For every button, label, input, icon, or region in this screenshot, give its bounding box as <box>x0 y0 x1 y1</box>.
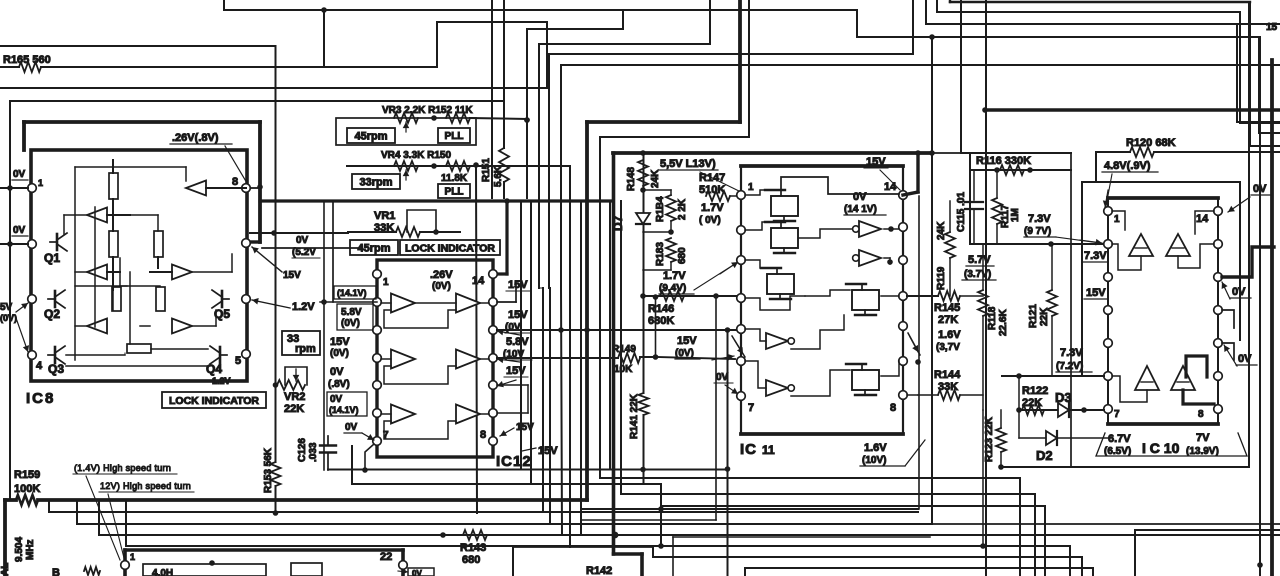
svg-text:15V: 15V <box>538 445 558 457</box>
IC8 wire i10 <box>192 325 216 327</box>
svg-text:(.8V): (.8V) <box>328 379 350 390</box>
wire top entry vertical <box>223 0 225 10</box>
wire y512 <box>49 511 918 513</box>
wire y118 to x527 <box>470 118 527 119</box>
wire x1071 drop <box>1070 153 1072 466</box>
svg-text:5,5V L13V): 5,5V L13V) <box>660 158 716 170</box>
wire bus x550 lower <box>549 288 551 524</box>
node x10 y244 <box>7 241 13 247</box>
thick bend to pin <box>251 240 260 243</box>
node y170 b <box>1027 167 1033 173</box>
wire x324 drop <box>323 10 325 67</box>
thick bus y500 horizontal <box>5 498 16 502</box>
IC12 box <box>377 260 493 457</box>
resistor R150 <box>446 161 470 171</box>
wire vertical bus x539 <box>538 44 540 288</box>
svg-text:680: 680 <box>677 247 688 264</box>
wire y535 main <box>99 534 1280 536</box>
IC11 wire e2 <box>884 257 890 259</box>
IC12 left pins <box>373 270 382 279</box>
wire pin7 bend <box>365 444 374 470</box>
svg-text:1.6V: 1.6V <box>864 442 887 454</box>
svg-text:1.6V: 1.6V <box>938 329 961 341</box>
wire x643 column <box>643 153 645 393</box>
thick bus x587 vertical <box>585 122 589 500</box>
svg-text:(6.5V): (6.5V) <box>1104 446 1131 457</box>
svg-text:7V: 7V <box>1196 432 1210 444</box>
IC10 tri1 <box>1129 234 1153 256</box>
resistor R145 27K <box>938 291 960 301</box>
wire x1250 drop <box>1249 2 1251 146</box>
node x728 y330 <box>725 327 731 333</box>
IC11 wire i <box>745 296 805 310</box>
wire bus x562 lower <box>561 288 562 535</box>
oscillator box top <box>125 548 403 552</box>
callout to pin8 <box>225 146 247 183</box>
node junction x324 y10 <box>321 7 327 13</box>
wire x333 <box>332 201 334 302</box>
svg-text:Q4: Q4 <box>206 362 222 376</box>
node y535 x443 <box>440 532 446 538</box>
svg-text:(0V): (0V) <box>0 313 17 323</box>
svg-text:27K: 27K <box>938 314 958 326</box>
wire x99 stub <box>98 500 100 535</box>
wire x986 long <box>985 0 987 576</box>
IC8 amp6 <box>172 319 192 334</box>
IC8 res2 <box>109 231 118 257</box>
IC8 wire i14 <box>75 285 160 287</box>
label 5.8V (0V) <box>337 304 373 330</box>
thick bus top right vertical x740 <box>738 0 742 122</box>
svg-text:R118: R118 <box>987 306 998 330</box>
wire IC8 pin1 feed <box>0 187 28 189</box>
wire x673 drop <box>672 537 674 576</box>
IC8 res1 <box>109 173 118 199</box>
svg-text:15V: 15V <box>866 156 886 168</box>
IC10 wire b <box>1112 244 1141 270</box>
boxed 45rpm <box>347 128 395 143</box>
svg-text:1.2V: 1.2V <box>212 376 231 386</box>
svg-text:22.6K: 22.6K <box>998 309 1009 336</box>
resistor R153 56K <box>271 462 281 486</box>
label (14.1V) top <box>334 286 376 299</box>
IC8 wire i1 <box>75 166 186 168</box>
wire x926 from top <box>925 0 927 24</box>
node x275 y385 <box>273 382 279 388</box>
svg-text:100K: 100K <box>14 483 40 495</box>
svg-text:(0V): (0V) <box>341 318 360 329</box>
IC8 amp2 <box>87 208 107 223</box>
svg-text:R159: R159 <box>14 469 40 481</box>
svg-text:AL: AL <box>0 563 11 576</box>
diode D3 <box>1058 403 1069 417</box>
callout 4.8V <box>1106 174 1112 206</box>
IC10 wire c <box>1178 244 1214 268</box>
svg-text:10K: 10K <box>614 364 633 375</box>
svg-text:0V: 0V <box>345 422 358 433</box>
svg-text:22K: 22K <box>1022 397 1042 409</box>
IC8 amp4 <box>172 265 192 280</box>
thick x642 drop <box>640 554 644 576</box>
wire bus y10 horizontal <box>224 9 857 11</box>
wire y557 <box>653 556 1082 558</box>
wire x623 riser <box>622 10 624 29</box>
resistor R121 22K <box>1051 244 1053 290</box>
IC8 wire i16 <box>112 287 114 310</box>
IC8 amp1 <box>186 181 206 196</box>
svg-text:15V: 15V <box>506 365 526 377</box>
IC8 res horiz <box>127 344 151 353</box>
thick y110 rail <box>985 108 1280 112</box>
IC10 tri2 <box>1166 234 1190 256</box>
wire y46 horizontal <box>0 45 274 47</box>
wire x716 vertical <box>715 296 717 520</box>
svg-text:C115 .01: C115 .01 <box>956 192 967 232</box>
IC8 wire i7 <box>192 271 232 273</box>
IC8 pin q2 <box>28 295 37 304</box>
IC11 fet BR <box>852 370 879 390</box>
node x365 y470 <box>362 467 368 473</box>
node y535 x615 <box>612 532 619 539</box>
IC8 wire i6 <box>75 271 87 273</box>
svg-text:6.7V: 6.7V <box>1108 433 1131 445</box>
svg-text:7.3V: 7.3V <box>1060 347 1083 359</box>
wire y88 horizontal <box>0 87 547 89</box>
svg-text:(14.1V): (14.1V) <box>337 288 367 298</box>
IC10 top thick <box>1108 196 1218 200</box>
wire y410 r122 d3 <box>1019 409 1104 411</box>
LOCK INDICATOR box <box>162 392 266 408</box>
svg-text:VR4 3.3K R150: VR4 3.3K R150 <box>381 150 451 161</box>
resistor R165 560 <box>19 62 41 72</box>
resistor R159 100K on thick bus <box>16 495 38 505</box>
svg-text:R151: R151 <box>481 158 492 182</box>
wire y478 corner to nest <box>600 477 1020 479</box>
wire bus y37 horizontal <box>857 36 1259 38</box>
svg-text:33K: 33K <box>938 381 958 393</box>
node x932 y153 <box>929 150 935 156</box>
svg-text:R165 560: R165 560 <box>3 54 51 66</box>
wire y494 corner to nest <box>621 493 1035 495</box>
IC8 wire bottom <box>66 365 210 367</box>
wire x710 from top <box>709 0 711 44</box>
svg-text:5.6K: 5.6K <box>493 165 504 187</box>
svg-text:R1B4: R1B4 <box>655 196 666 222</box>
pot VR4 arrow <box>405 170 407 180</box>
IC11 wire h <box>881 295 899 297</box>
IC11 fet ML <box>767 274 794 294</box>
svg-text:2 2K: 2 2K <box>677 198 688 220</box>
wire x1082 drop <box>1081 557 1083 576</box>
svg-text:680K: 680K <box>648 315 674 327</box>
svg-text:8: 8 <box>480 429 486 441</box>
IC8 amp5 <box>87 319 107 334</box>
callout 5V pin b <box>16 318 28 352</box>
wire vertical bus x549 <box>548 54 550 288</box>
wire y467 under ic10 <box>1001 466 1249 468</box>
IC11 wire e <box>884 228 899 230</box>
resistor R118 22.6K <box>982 244 984 290</box>
svg-text:15V: 15V <box>677 335 697 347</box>
wire bus x531 <box>530 202 532 484</box>
svg-text:.033: .033 <box>308 442 319 462</box>
callout 7.3V <box>1056 237 1100 243</box>
node x643 y296 <box>640 293 646 299</box>
thick rail x613 drop <box>612 153 616 554</box>
wire x728 drop <box>727 330 729 576</box>
svg-text:15V: 15V <box>508 279 528 291</box>
svg-text:510K: 510K <box>699 184 725 196</box>
svg-text:(0V: (0V <box>505 322 521 333</box>
IC11 fet TL <box>771 196 798 216</box>
wire bus x621 <box>620 201 622 494</box>
svg-text:5.8V: 5.8V <box>506 336 529 348</box>
inner box 4.0H <box>143 564 266 576</box>
thick IC8 rail y122 <box>24 120 260 124</box>
IC8 wire i3 <box>107 214 158 216</box>
wire x352 stub <box>351 446 353 484</box>
wire IC12 y330 long <box>497 329 741 331</box>
IC10 wire a <box>1112 211 1125 230</box>
wire y170 <box>970 169 1071 171</box>
node VR1 out <box>433 229 439 235</box>
inner box 2 <box>291 563 322 576</box>
wire y146 stub <box>1250 145 1280 147</box>
boxed PLL bottom <box>438 184 470 198</box>
node y244 <box>1048 241 1054 247</box>
capacitor C115 .01 <box>973 170 975 200</box>
IC8 res4 <box>112 287 121 311</box>
svg-text:12V) High speed turn: 12V) High speed turn <box>100 481 191 491</box>
IC11 inv3 <box>766 333 788 349</box>
svg-text:0V: 0V <box>412 569 422 576</box>
resistor VR1 <box>396 227 420 237</box>
IC8 wire i11 <box>66 354 125 356</box>
wire y509 <box>581 508 918 510</box>
wire x77b stub <box>76 500 78 524</box>
wire x749 from top <box>748 0 750 137</box>
IC11 inv2 <box>859 250 881 266</box>
wire y296 R145 <box>907 295 938 297</box>
svg-text:R141 22K: R141 22K <box>629 393 640 439</box>
IC12 amp rows <box>391 294 415 313</box>
group VR1 loop <box>407 210 436 232</box>
svg-text:R148: R148 <box>626 167 637 191</box>
wire y376 <box>1002 375 1104 377</box>
resistor R152 <box>446 113 470 123</box>
IC10 tri3 <box>1135 366 1159 390</box>
IC11 box <box>741 166 903 434</box>
wire y484 <box>352 483 661 485</box>
svg-text:680: 680 <box>462 554 480 566</box>
thick rail y201 to IC12 <box>260 199 613 202</box>
wire x1249 <box>1248 2 1250 467</box>
LOCK INDICATOR box 2 <box>400 240 500 255</box>
wire x1020 drop <box>1019 478 1021 576</box>
IC8 pin 4 <box>28 351 37 360</box>
svg-text:11: 11 <box>762 443 775 457</box>
IC11 fet TR <box>852 290 879 310</box>
node x1260 y565 <box>1257 562 1263 568</box>
IC8 pin right2 <box>242 239 251 248</box>
oscillator box left <box>123 550 127 576</box>
svg-text:7: 7 <box>748 402 754 414</box>
resistor R122 22K <box>1022 405 1044 415</box>
svg-text:R142: R142 <box>586 565 612 576</box>
wire y470 <box>328 469 728 471</box>
pot VR3 arrow <box>405 122 407 132</box>
callout 15V ic11 <box>712 356 734 360</box>
svg-text:7: 7 <box>1114 409 1120 420</box>
pot VR2 22K loop <box>285 367 307 385</box>
resistor VR2 22K <box>277 380 305 390</box>
IC11 slash tl <box>732 336 745 357</box>
frame y182 <box>1082 181 1240 183</box>
svg-text:( 0V): ( 0V) <box>699 215 721 226</box>
node y410 x1019 <box>1016 407 1022 413</box>
svg-text:15V: 15V <box>516 422 534 433</box>
wire x1096 drop <box>1095 152 1097 182</box>
svg-text:8: 8 <box>232 176 238 188</box>
IC10 right pins <box>1214 207 1223 216</box>
wire x513 drop <box>512 547 514 576</box>
svg-text:5.7V: 5.7V <box>968 254 991 266</box>
node x985 y110 <box>982 107 988 113</box>
wire left rail x10 <box>9 101 11 500</box>
svg-text:Q3: Q3 <box>48 362 64 376</box>
thick x507 drop to pin14 <box>505 201 508 274</box>
callout 5.5V <box>700 172 741 192</box>
resistor R148 24K <box>638 160 648 186</box>
frame x1231 <box>1239 182 1241 340</box>
IC8 box <box>31 150 247 381</box>
wire y133 to right edge <box>1259 132 1280 134</box>
node x527 y120 <box>524 117 530 123</box>
wire x653 stub <box>652 546 654 557</box>
wire y530 stub <box>1135 529 1280 531</box>
R116 box left <box>969 153 971 244</box>
boxed 33rpm <box>352 174 400 189</box>
wire x1045 drop <box>1044 506 1046 576</box>
svg-text:4.0H: 4.0H <box>152 568 173 576</box>
IC10 pin hook r1 <box>1222 310 1234 328</box>
wire bus x581 <box>580 201 582 535</box>
oscillator box right <box>401 550 405 576</box>
wire IC12 y358 out <box>497 357 618 359</box>
IC11 big loop <box>781 177 899 194</box>
IC11 wire b <box>745 222 769 230</box>
wire y137 bus <box>600 136 749 138</box>
svg-text:5V: 5V <box>0 302 13 313</box>
IC11 wire d <box>798 229 852 238</box>
wire vertical bus x492 <box>491 0 493 198</box>
diode D2 <box>1046 431 1057 445</box>
node inner box <box>209 560 215 566</box>
svg-text:R121: R121 <box>1028 304 1039 328</box>
wire bus x600 <box>599 137 601 478</box>
wire x126 stub <box>125 500 127 546</box>
svg-text:(10V): (10V) <box>862 455 886 466</box>
wire y54 bus <box>549 53 913 55</box>
resistor R146 680K <box>660 291 684 301</box>
svg-text:0V: 0V <box>296 235 309 246</box>
thick y274 IC12 pin14 feed <box>491 272 507 275</box>
wire vertical bus x561 <box>560 65 562 288</box>
svg-text:VR1: VR1 <box>374 210 395 222</box>
wire x1260 <box>1259 37 1261 576</box>
svg-text:7.3V: 7.3V <box>1084 250 1107 262</box>
svg-text:22K: 22K <box>1039 307 1050 326</box>
node y410 x1084 <box>1081 407 1087 413</box>
node y376 x1019 <box>1016 373 1022 379</box>
svg-text:PLL: PLL <box>445 187 464 198</box>
wire y44 bus <box>539 43 710 45</box>
resistor R141 22K <box>639 393 649 415</box>
wire step x857 down <box>856 10 858 37</box>
IC10 thick hook f <box>1183 390 1214 404</box>
resistor R147 <box>706 191 730 201</box>
svg-text:R153 56K: R153 56K <box>263 447 274 493</box>
wire y248 <box>262 247 360 249</box>
svg-text:14: 14 <box>1196 213 1209 225</box>
node y170 a <box>994 167 1000 173</box>
arrow into 0V <box>398 571 408 572</box>
callout 1.7V <box>694 262 738 290</box>
svg-text:1.7V: 1.7V <box>701 202 724 214</box>
svg-text:R143: R143 <box>460 542 486 554</box>
wire y524 main <box>77 523 932 525</box>
wire 0V(5.2V) y232 <box>250 232 348 234</box>
wire bus x570 <box>569 166 571 547</box>
wire bus x543 lower <box>542 288 544 512</box>
IC11 top edge thick <box>741 164 903 168</box>
svg-text:MHz: MHz <box>25 539 36 560</box>
resistor R151 5.6K <box>499 148 509 182</box>
wire bus x521 <box>520 202 522 470</box>
svg-text:(5.2V: (5.2V <box>292 247 316 258</box>
node x728 y468 <box>725 466 731 472</box>
wire x937 from top <box>936 0 938 12</box>
svg-text:22: 22 <box>380 551 392 563</box>
wire after R149 <box>640 356 656 358</box>
svg-text:C126: C126 <box>297 438 308 462</box>
svg-text:I C 10: I C 10 <box>1142 440 1180 456</box>
wire r184 top <box>643 189 671 191</box>
wire x437 riser <box>436 22 438 67</box>
svg-text:Q2: Q2 <box>44 307 60 321</box>
wire IC12 y302 out <box>497 301 516 303</box>
wire pin8 to bus <box>250 187 260 189</box>
node x643 y469 <box>640 467 646 473</box>
svg-text:15V: 15V <box>283 270 301 281</box>
svg-text:(13.9V): (13.9V) <box>1186 446 1219 457</box>
IC8 pin 8 <box>242 184 251 193</box>
frame x1082 <box>1081 182 1083 376</box>
node x1001 y467 <box>998 464 1004 470</box>
wire y101 horizontal <box>10 100 504 102</box>
wire x1035 drop <box>1034 494 1036 576</box>
IC8 pin 1 <box>28 184 37 193</box>
node x275 y513 <box>273 510 279 516</box>
thick bus x5 left drop <box>3 500 7 576</box>
svg-text:D7: D7 <box>611 215 625 231</box>
thick 15V drop x918 <box>916 153 919 192</box>
node x273 y233 <box>271 230 277 236</box>
IC8 wire i4 <box>157 215 159 231</box>
svg-text:Q1: Q1 <box>44 251 60 265</box>
node x918 y362 <box>915 359 921 365</box>
IC8 amp3 <box>87 265 107 280</box>
